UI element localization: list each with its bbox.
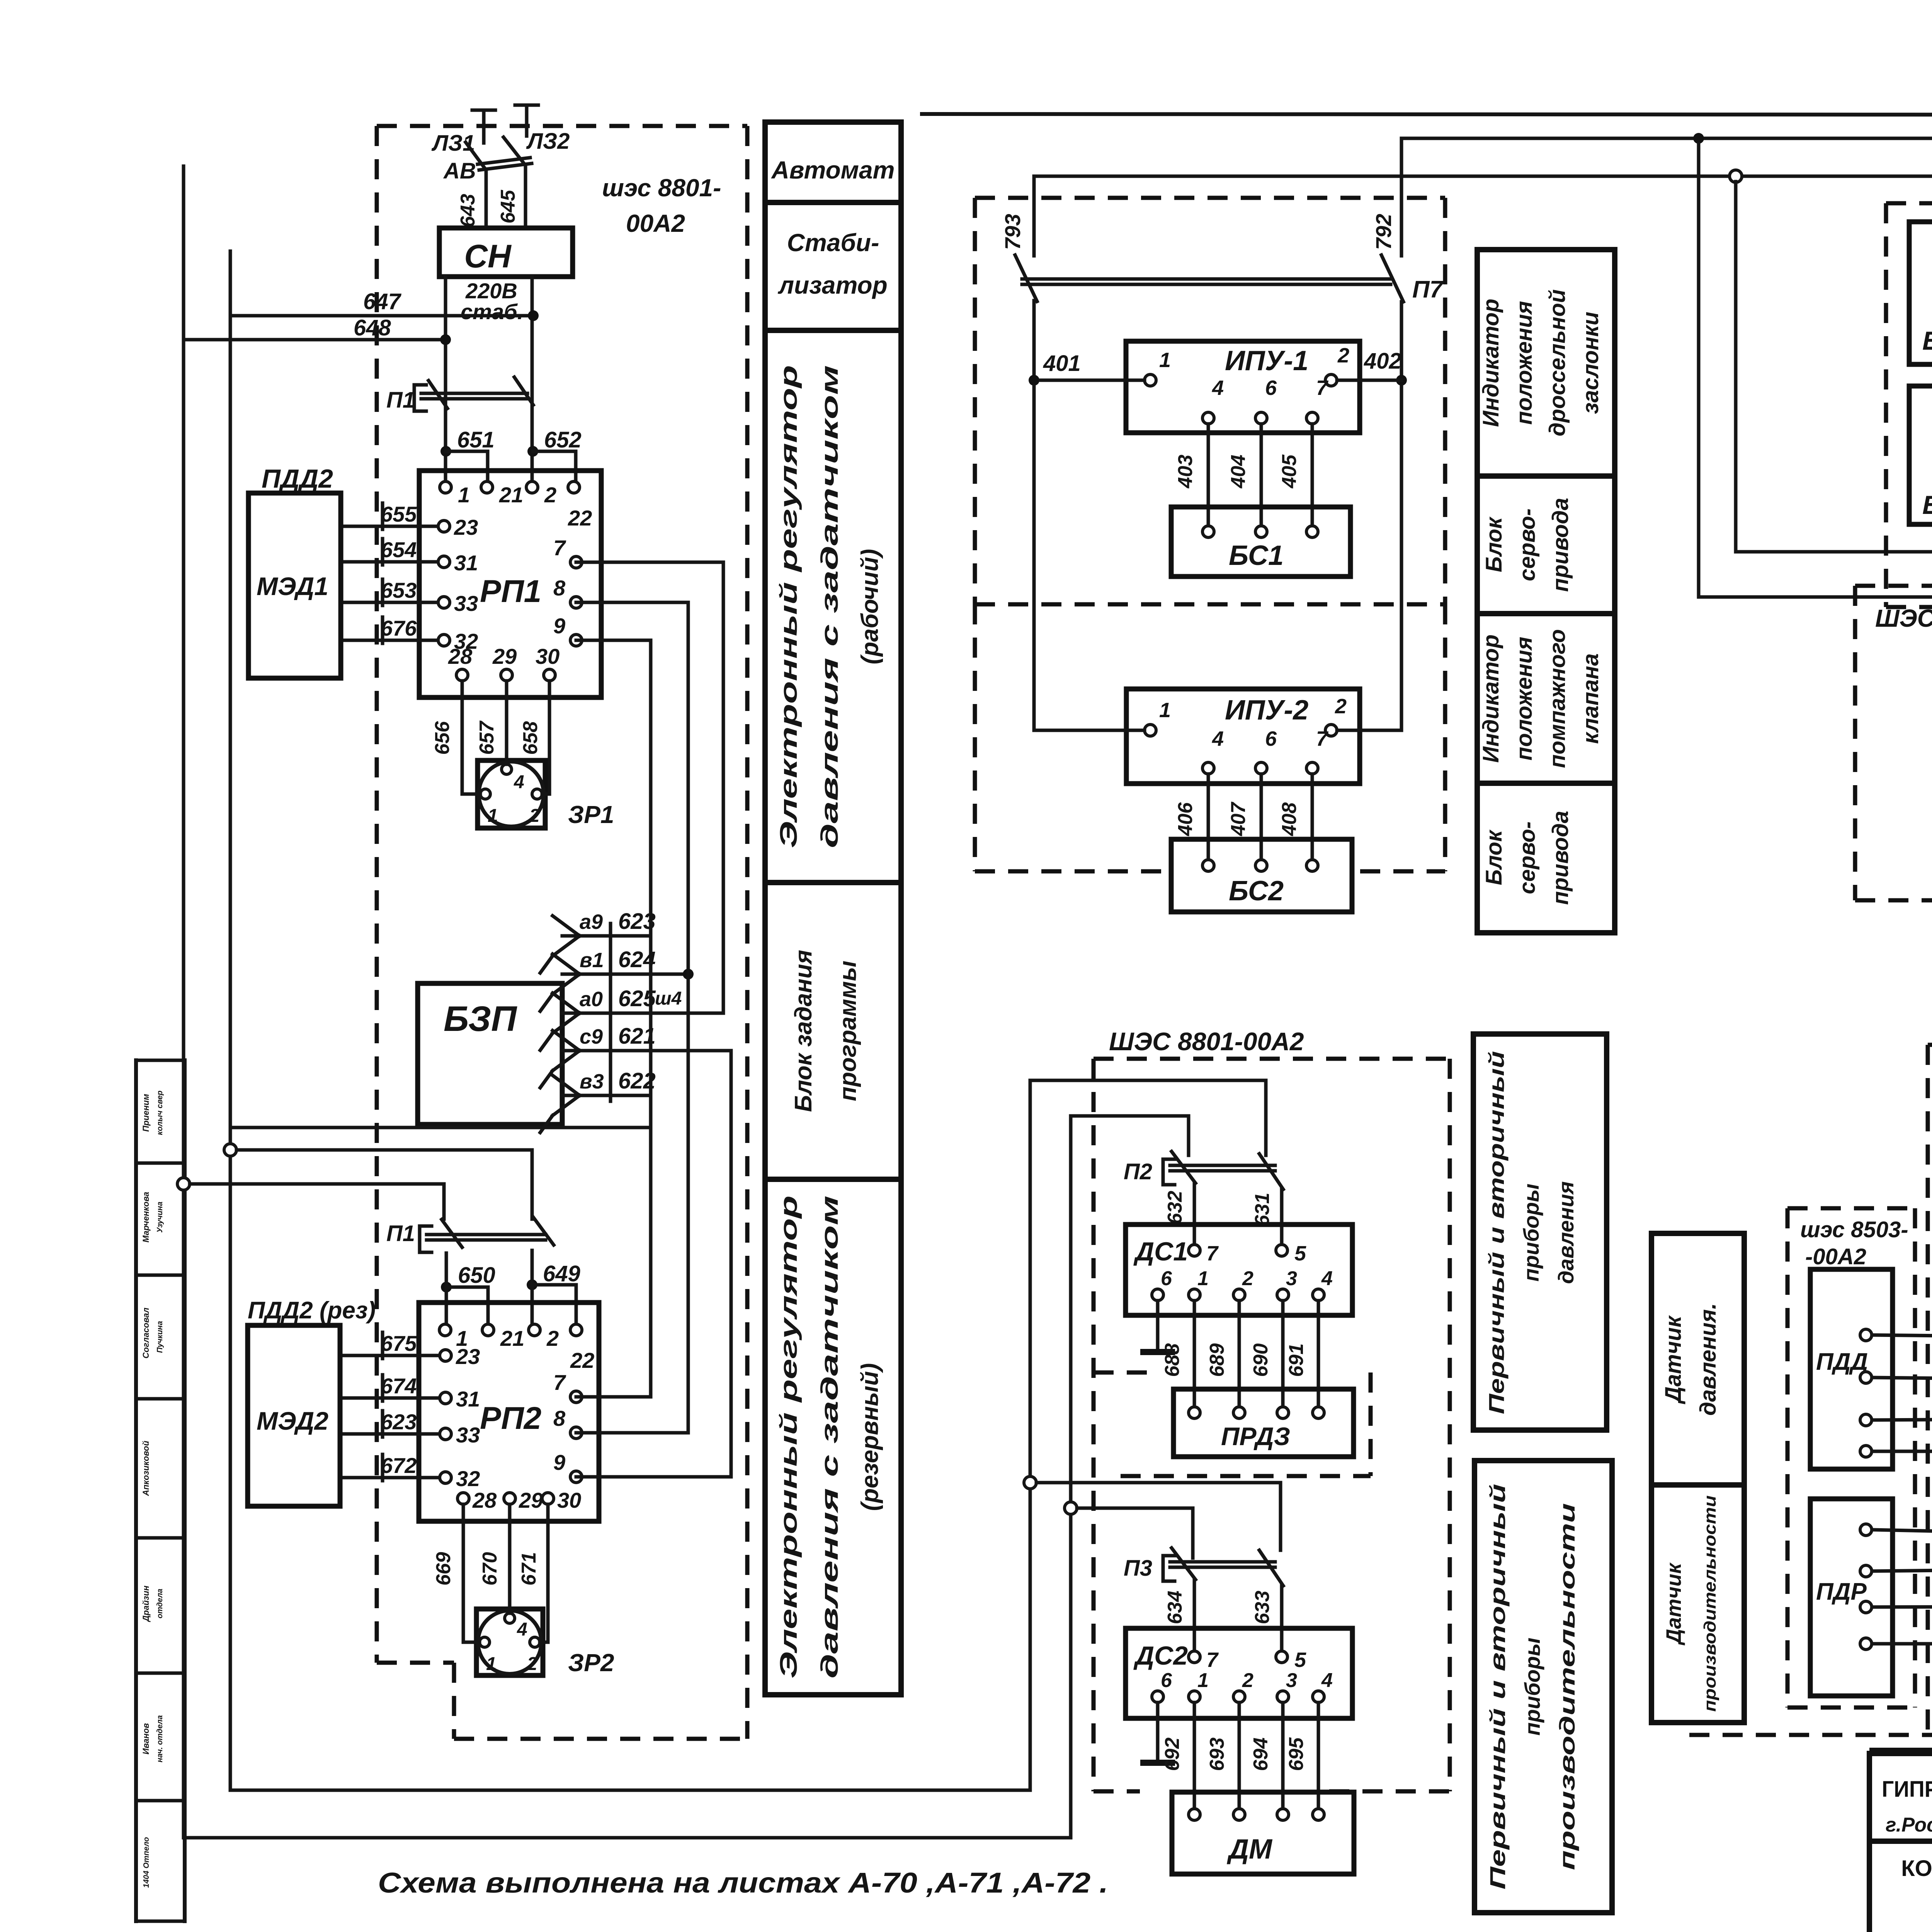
ПДД pin (757) — [1860, 1414, 1872, 1426]
svg-text:Марченкова: Марченкова — [141, 1192, 151, 1242]
block СН (стабилизатор) upper — [439, 228, 573, 277]
junction circle node on V596 — [224, 1144, 236, 1156]
svg-text:33: 33 — [456, 1423, 480, 1447]
svg-text:658: 658 — [519, 721, 542, 755]
svg-text:648: 648 — [354, 315, 391, 340]
svg-text:6: 6 — [1265, 727, 1277, 750]
РП1 top pin 21 — [481, 481, 493, 493]
svg-text:а9: а9 — [580, 910, 603, 934]
block ПДД — [1810, 1269, 1893, 1469]
svg-text:-00А2: -00А2 — [1805, 1244, 1866, 1269]
svg-text:ГИПРОСТРОЙДОРМАШ: ГИПРОСТРОЙДОРМАШ — [1882, 1777, 1932, 1802]
wire 656 — [462, 681, 480, 794]
junction dot wire 652 — [527, 446, 538, 457]
svg-text:9: 9 — [553, 614, 565, 638]
АВ feed stubs through dashed top — [482, 110, 486, 143]
svg-text:Стаби-: Стаби- — [787, 229, 879, 257]
БЗП output в1 wire 624 — [553, 954, 580, 974]
РП2 bottom pin 30 — [542, 1493, 554, 1504]
svg-text:давления.: давления. — [1696, 1303, 1721, 1415]
svg-text:691: 691 — [1285, 1344, 1308, 1377]
РП2 bottom pin 29 — [504, 1493, 515, 1504]
svg-text:ЗР1: ЗР1 — [568, 801, 614, 828]
БЗП cable rule — [609, 923, 612, 1101]
svg-text:нач. отдела: нач. отдела — [156, 1715, 164, 1762]
wire 758 — [1872, 1450, 1932, 1453]
П7 pole drops — [1032, 176, 1036, 256]
БЗП output а9 wire 623 — [553, 916, 580, 936]
wire 669 — [463, 1504, 480, 1642]
svg-text:643: 643 — [457, 194, 479, 228]
svg-text:669: 669 — [432, 1552, 455, 1586]
wire 652 branch to pin22 — [533, 451, 576, 487]
wire 672 МЭД2 to РП2 pin 32 — [340, 1476, 446, 1480]
БЗП output в3 wire 622 — [553, 1075, 580, 1095]
wire 792 branch down to П4 — [1699, 144, 1932, 597]
ДС2 pin 3 — [1277, 1691, 1289, 1702]
sidebar dividers — [136, 1059, 185, 1062]
svg-text:(рабочий): (рабочий) — [857, 549, 883, 665]
feed buses to П2 — [1030, 1080, 1266, 1155]
svg-text:401: 401 — [1043, 351, 1081, 376]
block ПДР — [1810, 1499, 1893, 1696]
svg-text:9: 9 — [553, 1450, 565, 1475]
svg-text:632: 632 — [1164, 1191, 1186, 1225]
svg-text:1404 Отпело: 1404 Отпело — [142, 1837, 151, 1888]
svg-text:МЭД2: МЭД2 — [257, 1406, 328, 1435]
svg-text:405: 405 — [1278, 454, 1301, 489]
wire 658 — [542, 681, 549, 794]
svg-text:шэс 8503-: шэс 8503- — [1800, 1217, 1908, 1242]
dashed enclosure ШЭС 8801-00А2 (main cabinet) — [377, 124, 747, 128]
block МЭД1 (датчик) — [248, 493, 341, 678]
svg-text:ДС1: ДС1 — [1133, 1237, 1188, 1266]
svg-text:7: 7 — [1316, 376, 1329, 400]
svg-text:давления с задатчиком: давления с задатчиком — [816, 1196, 843, 1679]
svg-text:1: 1 — [458, 483, 470, 507]
svg-text:674: 674 — [381, 1374, 417, 1398]
svg-text:Блок: Блок — [1481, 516, 1507, 572]
svg-text:1: 1 — [1159, 699, 1171, 722]
svg-text:33: 33 — [454, 591, 478, 616]
svg-text:2: 2 — [529, 806, 540, 826]
svg-text:00А2: 00А2 — [626, 209, 685, 237]
wire 653 МЭД1 to РП1 pin 33 — [341, 601, 444, 604]
wire 632 — [1193, 1183, 1196, 1245]
svg-text:29: 29 — [519, 1488, 543, 1512]
wire 695 — [1317, 1702, 1320, 1815]
svg-text:БС1: БС1 — [1229, 540, 1284, 571]
svg-text:28: 28 — [472, 1488, 497, 1512]
svg-text:2: 2 — [1337, 344, 1349, 367]
ДС1 pin 6 — [1152, 1289, 1163, 1301]
svg-text:РП1: РП1 — [480, 574, 541, 609]
svg-text:1: 1 — [1197, 1669, 1209, 1692]
wire 650 branch — [446, 1287, 488, 1330]
block БС2 (блок сервопривода) — [1171, 839, 1352, 912]
svg-text:Индикатор: Индикатор — [1478, 634, 1503, 763]
ДС2 pin 2 — [1233, 1691, 1245, 1702]
wire 621 path — [562, 1049, 731, 1053]
svg-text:ДМ: ДМ — [1226, 1834, 1273, 1865]
ДС2 pin 6 — [1152, 1691, 1163, 1702]
svg-text:ПДД2 (рез): ПДД2 (рез) — [248, 1297, 376, 1324]
wire 624 path — [562, 973, 688, 976]
wire 651 branch to pin21 — [446, 451, 488, 487]
wire 623 МЭД2 to РП2 pin 33 — [340, 1432, 446, 1436]
svg-text:Датчик: Датчик — [1661, 1315, 1686, 1405]
АВ left blade — [466, 142, 486, 229]
svg-text:22: 22 — [570, 1348, 594, 1372]
label column 2 outer — [1477, 250, 1615, 933]
svg-text:647: 647 — [363, 289, 402, 314]
wire СН right leg to РП1 pin2 — [531, 277, 534, 487]
svg-text:1: 1 — [486, 1654, 497, 1674]
svg-text:производительности: производительности — [1701, 1495, 1719, 1712]
dashed enclosure ШЭС 8503-00А2 (1) — [1886, 201, 1932, 206]
svg-text:623: 623 — [381, 1410, 417, 1434]
wire СН left leg to РП1 pin1 — [444, 277, 447, 487]
wire 625 path — [562, 1012, 723, 1015]
wire to ИПУ-2 pin2 — [1337, 729, 1401, 732]
svg-text:МЭД1: МЭД1 — [257, 572, 328, 600]
svg-text:676: 676 — [381, 616, 417, 640]
svg-text:2: 2 — [1242, 1669, 1253, 1692]
svg-text:634: 634 — [1164, 1591, 1186, 1624]
РП2 top pin 1 — [439, 1324, 451, 1336]
svg-text:2: 2 — [1335, 695, 1347, 718]
svg-text:1: 1 — [488, 806, 498, 826]
svg-text:5: 5 — [1294, 1648, 1306, 1672]
svg-text:П3: П3 — [1124, 1556, 1152, 1581]
junction wire 401 — [1029, 375, 1039, 386]
svg-text:656: 656 — [431, 721, 454, 755]
ИПУ-2 pin 2 — [1325, 724, 1337, 736]
wire to lower П1 left pole — [190, 1184, 444, 1219]
svg-text:Пучкина: Пучкина — [156, 1321, 164, 1353]
РП2 bottom pin 28 — [457, 1493, 469, 1504]
dashed enclosure ИПУ-2 — [973, 604, 977, 871]
svg-text:приборы: приборы — [1519, 1184, 1543, 1282]
ИПУ-1 pin 6 — [1255, 412, 1267, 424]
wire 634 — [1193, 1580, 1196, 1651]
wire 670 — [508, 1504, 512, 1613]
svg-text:8: 8 — [553, 1406, 566, 1430]
ДС1 pin 1 — [1189, 1289, 1200, 1301]
ИПУ-1 pin 1 — [1145, 374, 1156, 386]
БЗП output с9 wire 621 — [553, 1031, 580, 1051]
wire 655 МЭД1 to РП1 pin 23 — [341, 525, 444, 528]
ИПУ-1 pin1/2 vertical drops — [1032, 386, 1036, 730]
wire 756 — [1872, 1378, 1932, 1379]
wire 404 — [1260, 424, 1263, 532]
svg-text:дроссельной: дроссельной — [1545, 289, 1570, 437]
svg-text:Блок: Блок — [1481, 829, 1507, 885]
svg-text:Электронный регулятор: Электронный регулятор — [776, 365, 802, 848]
vertical bus x2666 — [1029, 1080, 1032, 1790]
dashed enclosure ШЭС 9102-53А3 (1) — [1855, 584, 1932, 588]
wire 622 drop and branch — [230, 1126, 651, 1129]
svg-text:2: 2 — [1242, 1267, 1253, 1290]
РП2 right pin 7 — [570, 1391, 582, 1403]
wire 674 МЭД2 to РП2 pin 31 — [340, 1396, 446, 1400]
sidebar column left rule — [134, 1060, 138, 1921]
wire 408 — [1311, 774, 1314, 866]
svg-text:1: 1 — [1159, 349, 1171, 372]
wire 676 МЭД1 to РП1 pin 32 — [341, 639, 444, 642]
svg-text:шэс 8801-: шэс 8801- — [602, 174, 721, 202]
junction wire 649 — [527, 1279, 537, 1290]
wire 621 drop — [730, 1051, 733, 1477]
label column: Блок задания программы — [765, 883, 901, 1179]
svg-text:671: 671 — [518, 1552, 540, 1586]
svg-text:ШЭС 9102-53А3: ШЭС 9102-53А3 — [1875, 604, 1932, 632]
svg-text:П1: П1 — [386, 388, 415, 413]
svg-text:657: 657 — [476, 721, 498, 755]
ground at ДС2 pin 6 — [1156, 1702, 1160, 1760]
wire 757 — [1872, 1419, 1932, 1420]
svg-text:Схема выполнена на листах А-70: Схема выполнена на листах А-70 ,А-71 ,А-… — [378, 1867, 1108, 1899]
wire 692 — [1193, 1702, 1196, 1815]
svg-text:ДС2: ДС2 — [1133, 1641, 1188, 1670]
svg-text:4: 4 — [1212, 727, 1224, 750]
svg-text:заслонки: заслонки — [1578, 312, 1603, 414]
svg-text:402: 402 — [1364, 349, 1401, 374]
wire 407 — [1260, 774, 1263, 866]
label column: Стабилизатор — [765, 202, 901, 330]
ИПУ-2 pin 6 — [1255, 762, 1267, 774]
label column: Электронный регулятор давления с задатчиком (резервный) — [765, 1179, 901, 1695]
АВ right blade — [503, 137, 526, 229]
ИПУ-1 pin 2 — [1325, 374, 1337, 386]
svg-text:с9: с9 — [580, 1025, 603, 1048]
svg-text:672: 672 — [381, 1453, 417, 1478]
svg-text:23: 23 — [454, 515, 478, 539]
svg-text:давления с задатчиком: давления с задатчиком — [816, 365, 843, 848]
svg-text:Индикатор: Индикатор — [1478, 299, 1503, 427]
РП2 top pin 2 — [529, 1324, 540, 1336]
svg-text:Первичный и вторичный: Первичный и вторичный — [1484, 1051, 1509, 1414]
wire 793 top bus — [1034, 175, 1932, 178]
wire 657 — [505, 681, 509, 764]
svg-text:22: 22 — [568, 506, 592, 530]
ИПУ-2 pin 4 — [1202, 762, 1214, 774]
wire 691 — [1317, 1301, 1320, 1413]
sidebar column right rule — [183, 1060, 187, 1921]
junction wire 650 — [441, 1282, 452, 1293]
svg-text:631: 631 — [1251, 1193, 1274, 1226]
block БПА — [1909, 222, 1932, 364]
svg-text:670: 670 — [479, 1552, 501, 1586]
box Датчик давления — [1651, 1233, 1744, 1485]
svg-text:2: 2 — [546, 1326, 559, 1350]
svg-text:403: 403 — [1174, 455, 1197, 489]
wire 403 — [1207, 424, 1210, 532]
wire 694 — [1281, 1702, 1285, 1815]
svg-text:(резервный): (резервный) — [857, 1363, 883, 1511]
РП1 right pin 8 — [570, 597, 582, 608]
bus branches to П3 — [1024, 1476, 1036, 1489]
svg-text:407: 407 — [1227, 802, 1250, 837]
block МЭД2 (датчик) — [248, 1325, 340, 1506]
svg-text:30: 30 — [557, 1488, 581, 1512]
svg-text:31: 31 — [454, 551, 478, 575]
connector ЗР1 — [478, 760, 545, 828]
sheet top border — [922, 114, 1932, 115]
svg-text:Драйзин: Драйзин — [141, 1586, 151, 1622]
dashed enclosure ИПУ-1 — [975, 196, 1445, 200]
svg-text:программы: программы — [835, 961, 861, 1101]
svg-text:23: 23 — [456, 1344, 480, 1369]
junction 793/center drop — [1730, 170, 1742, 182]
svg-text:29: 29 — [492, 644, 517, 668]
РП1 bottom pin 29 — [501, 669, 512, 681]
svg-text:695: 695 — [1285, 1737, 1308, 1771]
wire 622 path — [562, 1094, 651, 1097]
svg-text:ИПУ-1: ИПУ-1 — [1225, 345, 1308, 376]
wire 401 — [1040, 379, 1145, 382]
ПДР pin (760) — [1860, 1565, 1872, 1577]
svg-text:Первичный и вторичный: Первичный и вторичный — [1485, 1484, 1510, 1889]
ПДД pin (756) — [1860, 1372, 1872, 1383]
block РП2 (регулятор давления резервный) — [419, 1303, 599, 1521]
svg-text:положения: положения — [1512, 637, 1537, 760]
svg-text:645: 645 — [497, 190, 519, 224]
РП1 top pin 1 — [440, 481, 451, 493]
РП1 top pin 2 — [526, 481, 538, 493]
wire 689 — [1238, 1301, 1241, 1413]
svg-text:689: 689 — [1206, 1344, 1228, 1377]
svg-text:21: 21 — [500, 1326, 524, 1350]
svg-text:привода: привода — [1548, 811, 1573, 905]
svg-text:в1: в1 — [580, 949, 604, 972]
svg-text:690: 690 — [1250, 1344, 1272, 1377]
svg-text:2: 2 — [544, 483, 556, 507]
vertical bus 623/РП1-9 — [576, 640, 651, 1397]
svg-text:693: 693 — [1206, 1738, 1228, 1771]
svg-text:793: 793 — [1000, 214, 1025, 250]
svg-text:колыч свер: колыч свер — [156, 1090, 164, 1135]
svg-text:БТА: БТА — [1922, 490, 1932, 520]
wire 649 branch — [532, 1285, 576, 1330]
title block top rule — [1869, 1748, 1932, 1753]
svg-text:5: 5 — [1294, 1242, 1306, 1265]
svg-text:Датчик: Датчик — [1662, 1562, 1685, 1646]
wire to ИПУ-2 pin1 — [1034, 729, 1145, 732]
svg-text:651: 651 — [457, 427, 495, 452]
svg-text:Согласовал: Согласовал — [141, 1308, 151, 1359]
svg-text:ЛЗ2: ЛЗ2 — [526, 129, 570, 154]
wire 793 branch down to П4 — [1736, 182, 1932, 552]
svg-text:3: 3 — [1286, 1267, 1297, 1290]
svg-text:4: 4 — [1321, 1669, 1333, 1692]
svg-text:Блок задания: Блок задания — [790, 950, 817, 1112]
svg-text:31: 31 — [456, 1387, 480, 1411]
wire 631 — [1280, 1189, 1284, 1245]
svg-text:Иванов: Иванов — [141, 1723, 151, 1754]
svg-text:КОМПРЕССОРНАЯ: КОМПРЕССОРНАЯ — [1901, 1856, 1932, 1881]
svg-text:г.Ростов-на-Дону 1976г: г.Ростов-на-Дону 1976г — [1886, 1814, 1932, 1836]
АВ switch bars — [478, 158, 530, 164]
svg-text:Приеним: Приеним — [141, 1094, 151, 1132]
РП1 right pin 7 — [570, 556, 582, 568]
ПДР pin (762) — [1860, 1638, 1872, 1650]
wire 693 — [1238, 1702, 1241, 1815]
ПДР pin (761) — [1860, 1601, 1872, 1613]
svg-text:ПРДЗ: ПРДЗ — [1221, 1422, 1290, 1451]
ПДД pin (758) — [1860, 1446, 1872, 1457]
svg-text:производительности: производительности — [1555, 1503, 1579, 1870]
РП1 bottom pin 28 — [456, 669, 468, 681]
svg-text:6: 6 — [1161, 1267, 1172, 1290]
svg-text:652: 652 — [544, 427, 582, 452]
ИПУ-2 pin 7 — [1306, 762, 1318, 774]
svg-text:7: 7 — [1206, 1242, 1219, 1265]
РП2 right pin wires — [576, 1395, 651, 1399]
svg-text:БС2: БС2 — [1229, 876, 1284, 906]
block ИПУ-2 (индикатор положения) — [1126, 689, 1360, 784]
svg-text:404: 404 — [1227, 455, 1250, 489]
wire 406 — [1207, 774, 1210, 866]
wire 647 — [230, 314, 533, 318]
П3 feed drops — [1279, 1483, 1282, 1550]
box Датчик производительности — [1651, 1485, 1744, 1723]
svg-text:4: 4 — [1321, 1267, 1333, 1290]
wire 633 — [1280, 1586, 1284, 1651]
vertical РП1-8/624 — [576, 602, 688, 1433]
svg-text:7: 7 — [1316, 727, 1329, 750]
block ИПУ-1 (индикатор положения) — [1126, 341, 1360, 433]
box Первичный и вторичный приборы производительности — [1475, 1461, 1612, 1913]
wire 755 — [1872, 1335, 1932, 1337]
svg-text:в3: в3 — [580, 1070, 604, 1093]
svg-text:694: 694 — [1250, 1738, 1272, 1771]
wire 405 — [1311, 424, 1314, 532]
svg-text:7: 7 — [553, 1370, 566, 1395]
svg-text:692: 692 — [1161, 1738, 1184, 1771]
svg-text:отдела: отдела — [156, 1588, 164, 1618]
svg-text:4: 4 — [517, 1619, 527, 1640]
block РП1 (регулятор давления рабочий) — [419, 471, 601, 697]
svg-text:РП2: РП2 — [480, 1401, 541, 1436]
svg-text:654: 654 — [381, 537, 417, 562]
wire 688 — [1193, 1301, 1196, 1413]
dashed enclosure ШЭС 8503 (ПДД ПДР) — [1787, 1206, 1915, 1211]
block ДС2 — [1126, 1628, 1352, 1718]
svg-text:Узучина: Узучина — [156, 1202, 164, 1233]
РП2 right pin 9 — [570, 1471, 582, 1483]
svg-text:а0: а0 — [580, 988, 603, 1011]
block ДМ (давления/мембранный) lower — [1172, 1792, 1354, 1874]
wire bus V596 — [230, 251, 1030, 1790]
svg-text:приборы: приборы — [1520, 1638, 1544, 1736]
ИПУ-1 pin 4 — [1202, 412, 1214, 424]
wire 792 top bus — [1401, 138, 1932, 1410]
svg-text:792: 792 — [1371, 214, 1396, 250]
svg-text:3: 3 — [1286, 1669, 1297, 1692]
wire 654 МЭД1 to РП1 pin 31 — [341, 560, 444, 564]
svg-text:ШЭС 8801-00А2: ШЭС 8801-00А2 — [1109, 1027, 1304, 1056]
РП2 top pin 22 — [570, 1324, 582, 1336]
svg-text:32: 32 — [456, 1466, 480, 1491]
svg-text:СН: СН — [464, 238, 512, 274]
svg-text:привода: привода — [1548, 498, 1573, 592]
svg-text:633: 633 — [1251, 1591, 1274, 1624]
wire 648 — [184, 338, 446, 342]
svg-text:649: 649 — [543, 1261, 580, 1286]
svg-text:ш4: ш4 — [655, 988, 682, 1009]
svg-text:6: 6 — [1265, 376, 1277, 400]
